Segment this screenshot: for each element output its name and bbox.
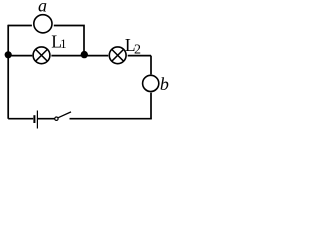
svg-text:b: b [160, 74, 169, 94]
svg-text:2: 2 [134, 42, 141, 57]
svg-text:a: a [38, 0, 47, 16]
svg-text:1: 1 [60, 37, 66, 51]
